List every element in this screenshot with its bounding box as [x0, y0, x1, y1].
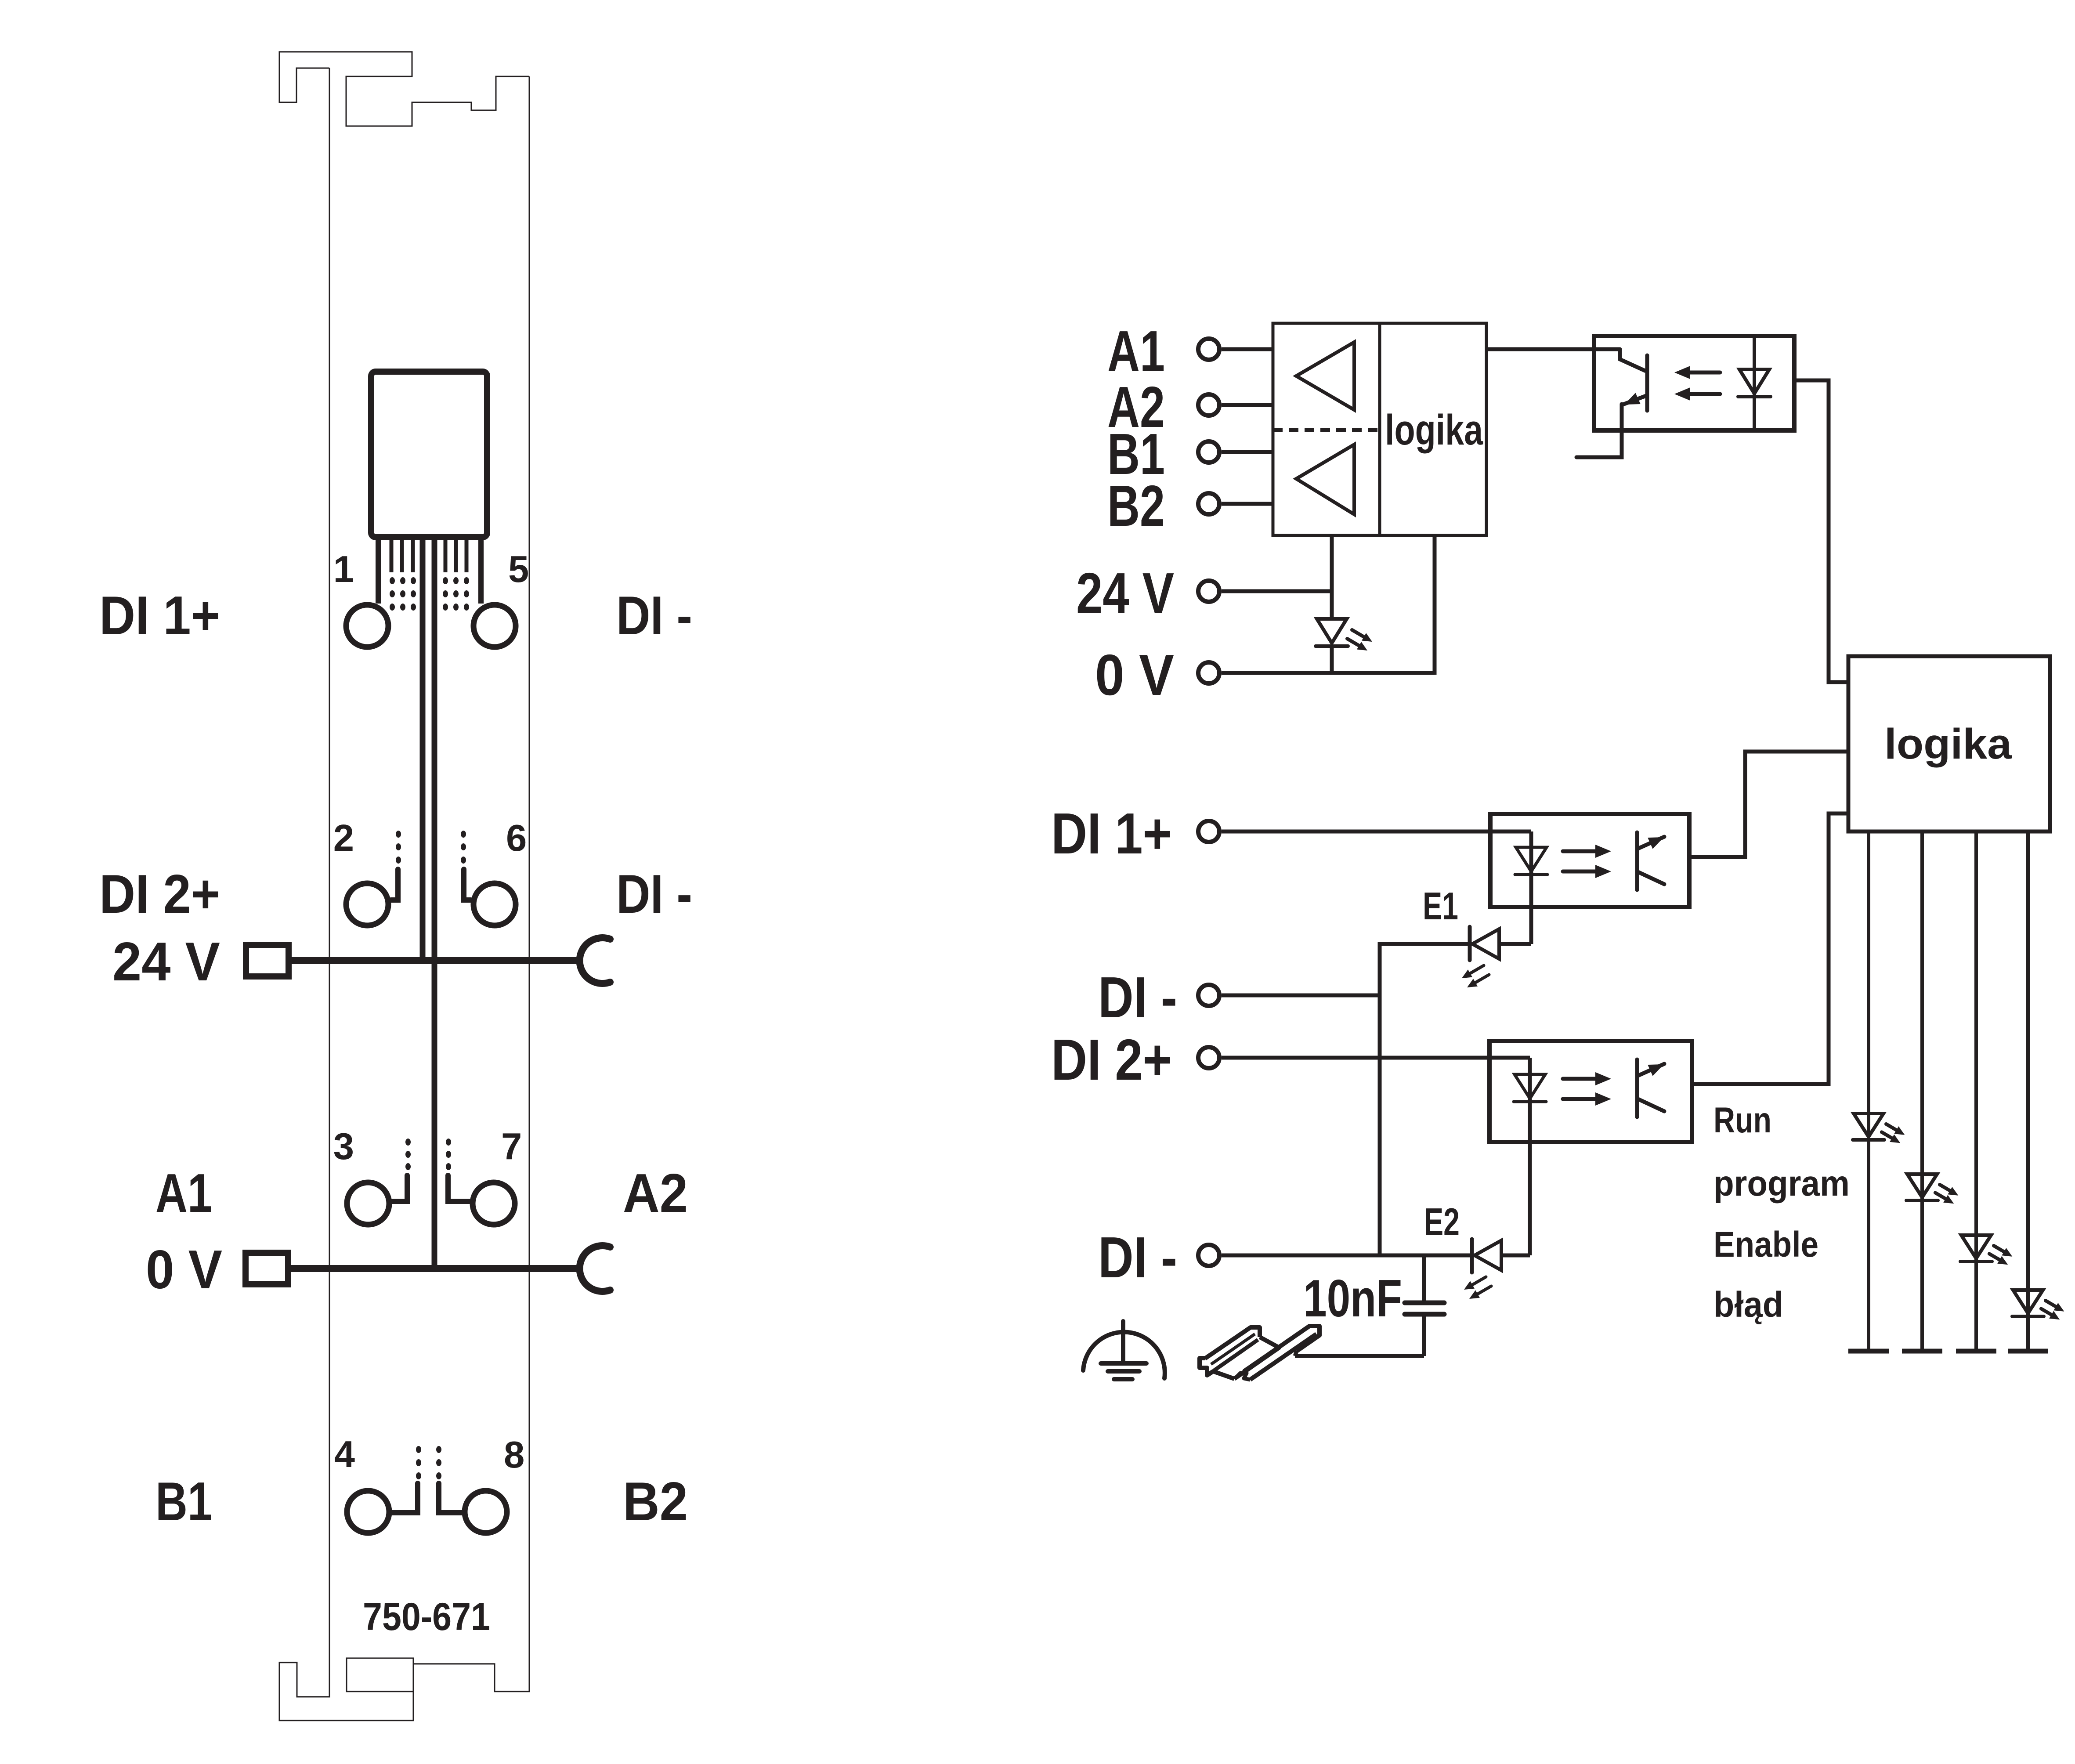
wire B2 to transceiver: [1222, 502, 1273, 506]
blad LED: [2013, 1290, 2043, 1313]
optocoupler U2 box: [1594, 336, 1794, 430]
program LED: [1907, 1174, 1937, 1197]
U5 phototransistor base: [1635, 1059, 1639, 1117]
terminal 3 hook: [392, 1175, 407, 1201]
connector pin to terminal 5: [478, 540, 484, 604]
svg-text:3: 3: [333, 1126, 354, 1168]
wire A1 to transceiver: [1222, 347, 1273, 351]
svg-text:Enable: Enable: [1714, 1225, 1818, 1265]
schematic terminal DI - (lower): [1198, 1245, 1219, 1266]
connector pin dots right: [443, 577, 448, 584]
bus wire right (0V feed from connector): [432, 537, 437, 1269]
terminal circle 2: [346, 883, 388, 925]
U2 emitter lead: [1622, 395, 1647, 405]
svg-text:A1: A1: [155, 1163, 212, 1224]
terminal 8 hook: [439, 1483, 462, 1513]
wire E1 row and DI- bus: [1380, 944, 1470, 1255]
connector block (terminal bus connector): [371, 372, 487, 537]
wire transceiver to optocoupler U2: [1486, 347, 1620, 351]
svg-text:4: 4: [334, 1434, 355, 1475]
E2 light arrows: [1472, 1277, 1486, 1285]
svg-text:1: 1: [333, 549, 354, 590]
wire logika to Run LED: [1867, 831, 1870, 1351]
wire DI- upper: [1222, 994, 1380, 998]
U2 light arrows (left): [1690, 371, 1720, 375]
diode E2 triangle: [1475, 1240, 1501, 1270]
svg-text:DI -: DI -: [1098, 965, 1177, 1030]
capacitor C1 10nF: [1422, 1255, 1426, 1301]
wire 24V to LED branch: [1222, 589, 1332, 593]
U5 collector lead: [1638, 1064, 1664, 1076]
wire U5 output to logika: [1692, 813, 1848, 1084]
wire DI1+ to optocoupler U4: [1222, 830, 1531, 834]
svg-text:B2: B2: [1107, 474, 1165, 538]
terminal 6 hook: [464, 869, 471, 900]
svg-text:10nF: 10nF: [1303, 1269, 1402, 1328]
U5 light arrows (right): [1563, 1077, 1595, 1081]
svg-text:B2: B2: [623, 1471, 688, 1532]
24V feed terminal lug: [246, 945, 289, 976]
schematic terminal DI - (upper): [1198, 985, 1219, 1006]
wire DI2+ to optocoupler U5: [1222, 1056, 1530, 1060]
24V jumper contact (spring): [580, 938, 610, 983]
schematic terminal 24V: [1198, 581, 1219, 602]
connector pin dots left: [390, 577, 395, 584]
connector short pins left: [390, 540, 394, 572]
wire capacitor to DIN rail: [1295, 1354, 1424, 1358]
0V power rail: [288, 1265, 582, 1272]
transceiver box U1: [1273, 323, 1486, 535]
svg-text:0 V: 0 V: [146, 1240, 222, 1300]
DIN rail symbol: [1200, 1358, 1234, 1379]
transceiver dashed separator: [1273, 428, 1380, 432]
E1 light arrows: [1470, 965, 1484, 973]
U5 input LED: [1515, 1074, 1545, 1099]
transceiver divider: [1378, 323, 1381, 535]
schematic terminal B1: [1198, 441, 1219, 463]
module outline (left I/O module silhouette): [279, 52, 529, 126]
wire A2 to transceiver: [1222, 403, 1273, 407]
terminal 7 hook: [448, 1175, 470, 1201]
U2 collector lead: [1620, 349, 1645, 371]
schematic terminal A1: [1198, 339, 1219, 360]
svg-text:logika: logika: [1884, 720, 2012, 768]
wire logika-box 0V drop: [1433, 535, 1437, 675]
svg-text:E1: E1: [1423, 884, 1458, 928]
terminal circle 7: [473, 1182, 515, 1225]
svg-text:7: 7: [501, 1126, 522, 1168]
connector pin to terminal 1: [376, 540, 381, 604]
wire 0V rail: [1222, 671, 1435, 675]
power LED D1: [1317, 619, 1347, 643]
svg-text:Run: Run: [1714, 1100, 1771, 1140]
svg-text:DI 2+: DI 2+: [99, 864, 220, 925]
U4 phototransistor base: [1635, 832, 1639, 890]
optocoupler U4 box: [1490, 814, 1689, 907]
terminal 2 hook: [391, 869, 398, 900]
svg-text:błąd: błąd: [1714, 1285, 1783, 1325]
svg-text:logika: logika: [1385, 406, 1483, 454]
receiver triangle lower: [1296, 445, 1354, 514]
0V jumper contact (spring): [580, 1246, 610, 1291]
Enable LED: [1961, 1235, 1991, 1258]
U5 LED drop wire: [1528, 1058, 1532, 1255]
terminal 4 hook: [392, 1483, 418, 1513]
U4 collector lead: [1638, 837, 1664, 849]
svg-text:6: 6: [506, 817, 527, 859]
svg-text:DI 2+: DI 2+: [1051, 1027, 1172, 1092]
svg-text:750-671: 750-671: [363, 1594, 490, 1638]
wire logika to program LED: [1920, 831, 1924, 1351]
0V feed terminal lug: [246, 1253, 288, 1284]
schematic terminal DI 1+: [1198, 821, 1219, 842]
terminal circle 6: [474, 883, 516, 925]
svg-text:2: 2: [333, 817, 354, 859]
optocoupler U5 box: [1489, 1041, 1692, 1142]
terminal circle 4: [347, 1491, 389, 1533]
24V power rail: [289, 957, 582, 964]
svg-text:0 V: 0 V: [1095, 643, 1174, 707]
wire logika to Enable LED: [1974, 831, 1978, 1351]
svg-text:A1: A1: [1107, 319, 1165, 383]
wire U2 to logika box: [1794, 380, 1848, 682]
wire U4 output to logika: [1689, 752, 1848, 857]
schematic terminal 0V: [1198, 662, 1219, 683]
Enable LED terminator bar: [1956, 1349, 1996, 1354]
U5 emitter lead: [1638, 1099, 1664, 1111]
connector short pins right: [444, 540, 448, 572]
earth ground symbol: [1121, 1321, 1125, 1363]
U4 emitter lead: [1638, 872, 1664, 884]
svg-text:DI -: DI -: [616, 864, 692, 925]
svg-text:DI 1+: DI 1+: [1051, 801, 1172, 866]
Run LED: [1854, 1113, 1883, 1137]
program LED terminator bar: [1902, 1349, 1942, 1354]
svg-text:program: program: [1714, 1164, 1850, 1204]
U2 internal LED: [1753, 336, 1756, 430]
bus wire left (24V feed from connector): [420, 537, 426, 960]
terminal circle 3: [347, 1182, 389, 1225]
U4 light arrows (right): [1563, 849, 1595, 853]
diode E1 triangle: [1472, 929, 1499, 959]
wire transceiver 24V branch: [1330, 535, 1334, 621]
wire LED to 0V rail: [1330, 647, 1334, 673]
terminal circle 5: [474, 605, 516, 647]
diode E2 cathode bar: [1470, 1239, 1474, 1272]
receiver triangle upper: [1296, 342, 1354, 410]
svg-text:E2: E2: [1424, 1200, 1460, 1243]
schematic terminal A2: [1198, 394, 1219, 416]
U4 input LED: [1516, 847, 1547, 871]
svg-text:A2: A2: [623, 1163, 688, 1224]
svg-text:8: 8: [504, 1434, 524, 1476]
svg-text:24 V: 24 V: [112, 932, 220, 992]
terminal circle 1: [346, 605, 388, 647]
blad LED terminator bar: [2008, 1349, 2048, 1354]
diode E1 cathode bar: [1468, 927, 1472, 960]
U2 emitter stub: [1576, 404, 1622, 457]
svg-text:DI -: DI -: [616, 586, 692, 646]
terminal circle 8: [465, 1491, 507, 1533]
U4 LED drop wire: [1529, 831, 1533, 944]
Run LED terminator bar: [1848, 1349, 1889, 1354]
svg-text:24 V: 24 V: [1076, 561, 1174, 625]
wire E2 to LED drop: [1501, 1254, 1530, 1258]
svg-text:B1: B1: [155, 1471, 212, 1532]
wire DI- lower: [1222, 1254, 1472, 1258]
schematic terminal B2: [1198, 493, 1219, 514]
wire B1 to transceiver: [1222, 450, 1273, 454]
svg-text:DI -: DI -: [1098, 1225, 1177, 1290]
wire logika to blad LED: [2026, 831, 2030, 1351]
svg-text:DI 1+: DI 1+: [99, 586, 220, 646]
schematic terminal DI 2+: [1198, 1047, 1219, 1068]
logika box U3: [1848, 656, 2050, 831]
svg-text:5: 5: [508, 549, 529, 590]
U2 phototransistor base: [1645, 355, 1649, 411]
